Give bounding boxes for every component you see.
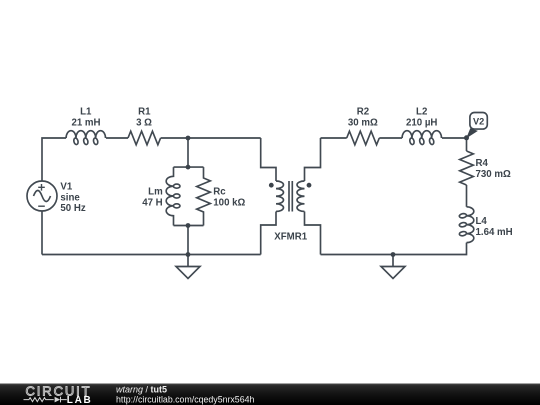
footer bar bbox=[0, 384, 540, 405]
probe V2 needle bbox=[466, 128, 478, 138]
svg-text:R4: R4 bbox=[476, 158, 489, 169]
svg-text:R2: R2 bbox=[357, 107, 369, 118]
svg-text:30 mΩ: 30 mΩ bbox=[348, 118, 378, 129]
inductor Lm bbox=[166, 167, 173, 225]
wire node to R4 bbox=[466, 138, 468, 151]
wire L4 to bottom rail bbox=[321, 243, 467, 255]
resistor R2 bbox=[347, 131, 380, 145]
svg-text:3 Ω: 3 Ω bbox=[136, 118, 152, 129]
node dot branch top bbox=[186, 165, 191, 170]
transformer XFMR1 primary bottom lead wires bbox=[261, 212, 276, 255]
probe V2 box bbox=[470, 113, 487, 130]
resistor Rc bbox=[197, 167, 211, 225]
svg-text:L4: L4 bbox=[476, 216, 488, 227]
svg-text:210 µH: 210 µH bbox=[406, 118, 437, 129]
node dot bottom rail ground1 bbox=[186, 252, 191, 257]
transformer XFMR1 secondary bottom lead wires bbox=[305, 212, 321, 255]
svg-text:50 Hz: 50 Hz bbox=[60, 203, 85, 214]
svg-text:L2: L2 bbox=[416, 107, 427, 118]
svg-text:V2: V2 bbox=[473, 116, 484, 126]
wire V1 bottom bbox=[41, 211, 43, 255]
inductor L1 bbox=[66, 131, 105, 138]
transformer XFMR1 core bbox=[289, 181, 292, 212]
svg-text:100 kΩ: 100 kΩ bbox=[213, 198, 245, 209]
svg-text:wtarng / tut5: wtarng / tut5 bbox=[116, 384, 167, 394]
logo squiggle resistor-diode bbox=[24, 397, 67, 403]
svg-text:L1: L1 bbox=[80, 107, 92, 118]
svg-text:47 H: 47 H bbox=[142, 198, 162, 209]
node dot bottom rail ground2 bbox=[391, 252, 396, 257]
svg-text:730 mΩ: 730 mΩ bbox=[476, 169, 511, 180]
svg-text:http://circuitlab.com/cqedy5nr: http://circuitlab.com/cqedy5nrx564h bbox=[116, 394, 254, 404]
svg-text:LAB: LAB bbox=[67, 395, 93, 405]
svg-text:Lm: Lm bbox=[148, 187, 163, 198]
wire bottom rail primary bbox=[42, 254, 261, 256]
transformer phase dot right bbox=[307, 183, 312, 188]
node dot branch bottom bbox=[186, 223, 191, 228]
transformer XFMR1 primary lead wires bbox=[261, 138, 276, 181]
svg-text:V1: V1 bbox=[60, 181, 72, 192]
wire branch top bar bbox=[174, 166, 204, 168]
svg-text:R1: R1 bbox=[138, 107, 151, 118]
svg-text:sine: sine bbox=[60, 192, 80, 203]
wire L1 to R1 bbox=[106, 137, 128, 139]
svg-text:21 mH: 21 mH bbox=[71, 118, 100, 129]
transformer XFMR1 secondary winding bbox=[297, 181, 304, 211]
inductor L4 bbox=[467, 207, 474, 243]
svg-text:1.64 mH: 1.64 mH bbox=[476, 227, 513, 238]
wire branch stub bottom bbox=[187, 226, 189, 255]
ground (primary) bbox=[176, 255, 200, 279]
node dot top rail branch bbox=[186, 136, 191, 141]
resistor R1 bbox=[128, 131, 161, 145]
inductor L2 bbox=[402, 131, 441, 138]
node dot V2 junction bbox=[464, 135, 469, 140]
wire R1 to transformer primary bbox=[161, 137, 261, 139]
logo diode triangle bbox=[55, 397, 61, 403]
wire top-left rail V1 to L1 bbox=[42, 138, 66, 181]
transformer XFMR1 secondary lead wires bbox=[305, 138, 321, 181]
wire branch bottom bar bbox=[174, 225, 204, 227]
resistor R4 bbox=[460, 151, 474, 185]
transformer phase dot left bbox=[269, 183, 274, 188]
wire R2 to L2 bbox=[379, 137, 402, 139]
wire R4 to L4 bbox=[466, 185, 468, 207]
wire branch stub top bbox=[187, 138, 189, 167]
wire secondary top rail to R2 bbox=[321, 137, 347, 139]
svg-text:Rc: Rc bbox=[213, 187, 226, 198]
transformer XFMR1 primary winding bbox=[276, 181, 284, 211]
ground (secondary) bbox=[381, 255, 405, 279]
voltage source V1 bbox=[27, 181, 57, 211]
svg-text:XFMR1: XFMR1 bbox=[274, 232, 307, 243]
wire L2 to node V2 bbox=[442, 137, 467, 139]
